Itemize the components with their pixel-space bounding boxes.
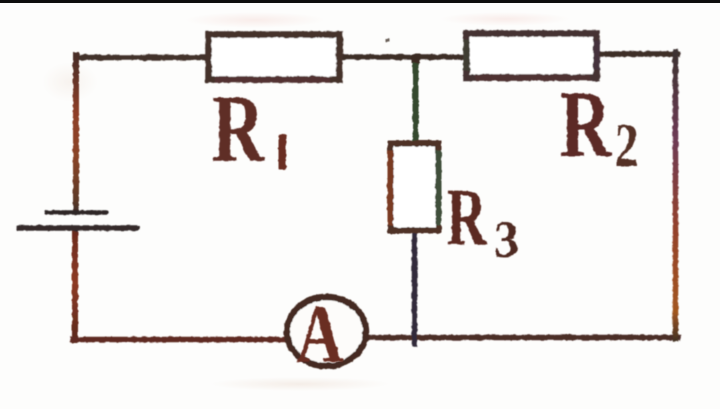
resistor R2 body (467, 34, 597, 78)
svg-text:2: 2 (615, 112, 639, 180)
wire middle vertical lower (R3 to bottom wire) (412, 231, 418, 344)
wire top-right segment (R2 to right corner) (598, 51, 677, 57)
svg-text:R: R (212, 75, 265, 182)
wire middle vertical upper (node to R3) (413, 57, 419, 144)
wire top-middle segment (R1 to R2 through node) (341, 54, 465, 60)
battery cell plate long (bottom) (19, 225, 137, 231)
wire bottom-left segment (corner to ammeter) (73, 337, 286, 343)
wire left vertical (battery branch) (73, 55, 79, 211)
wire right vertical (673, 52, 679, 339)
resistor R1 body (209, 35, 340, 80)
node speck above top wire (386, 39, 389, 42)
resistor R3 body (391, 144, 439, 231)
svg-text:R: R (447, 171, 488, 262)
wire bottom-right segment (ammeter to right corner) (367, 335, 678, 341)
svg-text:A: A (297, 288, 344, 381)
junction node T joint (411, 54, 420, 63)
wire left vertical below battery (72, 230, 78, 340)
ammeter A1 circle (287, 297, 366, 366)
svg-text:3: 3 (494, 212, 519, 269)
wire top-left segment (76, 55, 207, 61)
battery cell plate short (top) (46, 210, 106, 215)
svg-text:R: R (560, 71, 612, 177)
